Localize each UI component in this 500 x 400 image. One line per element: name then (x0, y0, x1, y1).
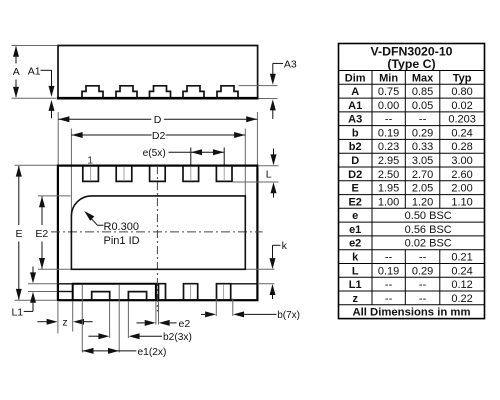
side view bottom edge (seating plane) (57, 97, 259, 100)
bottom view top pin 5 (216, 166, 232, 181)
svg-text:(Type C): (Type C) (387, 57, 435, 71)
dimension b2 line and arrows (88, 335, 98, 337)
svg-text:e(5x): e(5x) (143, 148, 166, 159)
k extension lines (246, 268, 275, 270)
svg-text:A3: A3 (348, 114, 362, 126)
svg-text:0.19: 0.19 (378, 127, 399, 139)
svg-text:3.05: 3.05 (412, 155, 433, 167)
R0.300 leader line (86, 212, 104, 225)
svg-text:A: A (351, 86, 359, 98)
svg-text:0.33: 0.33 (412, 141, 433, 153)
dimension A extension line bottom (12, 97, 57, 99)
table vertical grid lines (371, 71, 373, 305)
bottom view top pin 1 (83, 166, 99, 181)
svg-text:0.75: 0.75 (378, 86, 399, 98)
svg-text:1.20: 1.20 (412, 196, 433, 208)
svg-text:D2: D2 (152, 130, 166, 142)
svg-text:Min: Min (379, 72, 398, 84)
svg-text:e2: e2 (349, 238, 361, 250)
e1 extension lines (81, 285, 83, 353)
svg-text:--: -- (385, 293, 393, 305)
dimension D extension lines (57, 112, 59, 165)
svg-text:2.95: 2.95 (378, 155, 399, 167)
stub pad right of centerline (159, 284, 166, 300)
z extension lines (57, 302, 59, 334)
pin 2 centerline (123, 167, 125, 182)
svg-text:0.02: 0.02 (451, 100, 472, 112)
dimension A1 leader and arrows (41, 69, 52, 71)
dimension A line and arrows (15, 47, 17, 64)
svg-text:0.29: 0.29 (412, 265, 433, 277)
svg-text:L1: L1 (11, 306, 23, 318)
svg-text:0.21: 0.21 (451, 252, 472, 264)
svg-text:2.00: 2.00 (451, 183, 472, 195)
dimension e2 line and arrows (137, 322, 145, 324)
svg-text:Dim: Dim (345, 72, 366, 84)
dimension E2 line and arrows (41, 197, 43, 226)
bottom pin 6 (184, 284, 198, 300)
dimension e(5x) line and arrows (169, 151, 225, 153)
dimension E extension lines (15, 164, 58, 166)
side view lead bump 3 (150, 86, 171, 98)
side view lead bump 5 (217, 86, 238, 98)
svg-text:0.05: 0.05 (412, 100, 433, 112)
svg-text:A: A (13, 66, 20, 78)
dimension D line and arrows (58, 118, 151, 120)
svg-text:e2: e2 (179, 318, 191, 330)
svg-text:A3: A3 (284, 58, 297, 70)
dimension e1 line and arrows (82, 350, 136, 352)
svg-text:z: z (62, 317, 67, 329)
svg-text:E: E (15, 228, 22, 240)
svg-text:0.56 BSC: 0.56 BSC (405, 224, 452, 236)
svg-text:k: k (282, 240, 288, 252)
svg-text:D: D (154, 114, 162, 126)
svg-text:E2: E2 (348, 196, 361, 208)
svg-text:0.203: 0.203 (448, 114, 476, 126)
vertical centerline (156, 166, 158, 312)
pin 4 centerline (190, 167, 192, 182)
svg-text:0.80: 0.80 (451, 86, 472, 98)
svg-text:--: -- (385, 279, 393, 291)
svg-text:k: k (352, 252, 359, 264)
svg-text:--: -- (385, 114, 393, 126)
dimension A3 leader and arrows (273, 62, 283, 64)
svg-text:A1: A1 (28, 65, 41, 77)
pin 5 centerline (223, 167, 225, 182)
svg-text:--: -- (419, 114, 427, 126)
svg-text:0.28: 0.28 (451, 141, 472, 153)
svg-text:Pin1 ID: Pin1 ID (104, 235, 140, 247)
svg-text:--: -- (385, 252, 393, 264)
svg-text:D2: D2 (348, 169, 362, 181)
svg-text:Typ: Typ (453, 72, 472, 84)
pin 1 centerline (90, 167, 92, 182)
right corner wrap line (231, 283, 258, 285)
side view package body (58, 46, 258, 99)
svg-text:b2(3x): b2(3x) (163, 332, 192, 343)
left corner wrap lines (L1 step) (28, 283, 58, 285)
dimension L arrows (273, 149, 275, 155)
svg-text:E: E (352, 183, 359, 195)
svg-text:b2: b2 (349, 141, 362, 153)
svg-text:z: z (352, 293, 358, 305)
b extension lines (215, 299, 217, 317)
notch 2 in fused pad (128, 292, 146, 300)
b2 extension lines (109, 302, 111, 339)
exposed pad outline with pin1 chamfer arc (71, 196, 245, 269)
table horizontal grid lines (339, 70, 485, 72)
dimension e(5x) ticks (190, 148, 192, 166)
pin 7 centerline (223, 284, 225, 299)
side view lead bump 2 (116, 86, 137, 98)
dimension A extension line top (12, 45, 58, 47)
svg-text:2.70: 2.70 (412, 169, 433, 181)
notch 1 in fused pad (92, 292, 110, 300)
svg-text:0.24: 0.24 (451, 265, 472, 277)
svg-text:0.23: 0.23 (378, 141, 399, 153)
svg-text:b: b (352, 127, 359, 139)
dimension E line and arrows (18, 166, 20, 225)
dimension D2 line and arrows (71, 134, 151, 136)
svg-text:1.10: 1.10 (451, 196, 472, 208)
A3 bottom extension line (259, 98, 278, 100)
side view lead bump 1 (82, 86, 103, 98)
dimension L1 leader and arrows (32, 267, 34, 273)
svg-text:0.29: 0.29 (412, 127, 433, 139)
svg-text:--: -- (419, 293, 427, 305)
svg-text:0.22: 0.22 (451, 293, 472, 305)
bottom view top pin 3 (150, 166, 166, 181)
svg-text:2.60: 2.60 (451, 169, 472, 181)
pin 6 centerline (190, 284, 192, 299)
dimension b line and arrows (201, 313, 205, 315)
svg-text:R0.300: R0.300 (104, 221, 139, 233)
svg-text:L: L (352, 265, 359, 277)
svg-text:0.00: 0.00 (378, 100, 399, 112)
svg-text:e1: e1 (349, 224, 361, 236)
svg-text:0.02 BSC: 0.02 BSC (405, 238, 452, 250)
dimension E2 extension lines (38, 195, 71, 197)
svg-text:Max: Max (412, 72, 434, 84)
bottom view top pin 4 (183, 166, 199, 181)
svg-text:0.50 BSC: 0.50 BSC (405, 210, 452, 222)
svg-text:0.12: 0.12 (451, 279, 472, 291)
dimension k leader and arrows (273, 244, 281, 246)
svg-text:0.19: 0.19 (378, 265, 399, 277)
side view lead bump 4 (183, 86, 204, 98)
bottom pin 7 (217, 284, 231, 300)
dimension D2 extension lines (70, 129, 72, 215)
svg-text:--: -- (419, 252, 427, 264)
table outer border (339, 44, 485, 319)
svg-text:E2: E2 (35, 228, 48, 240)
svg-text:e: e (352, 210, 358, 222)
svg-text:1.00: 1.00 (378, 196, 399, 208)
R0.300 leader arrow (84, 211, 94, 221)
svg-text:L: L (266, 169, 272, 181)
svg-text:e1(2x): e1(2x) (138, 347, 167, 358)
horizontal centerline (51, 231, 263, 233)
dimension z line and arrows (37, 321, 46, 323)
svg-text:2.50: 2.50 (378, 169, 399, 181)
svg-text:--: -- (419, 279, 427, 291)
e2 extension lines (155, 301, 157, 325)
A3 lead thickness line (239, 85, 278, 87)
bottom view top pin 2 (116, 166, 132, 181)
L extension lines (258, 165, 279, 167)
bottom view package outline (58, 166, 258, 301)
fused wide pad (3 fingers) (73, 284, 156, 300)
svg-text:b(7x): b(7x) (277, 310, 300, 321)
svg-text:3.00: 3.00 (451, 155, 472, 167)
svg-text:D: D (351, 155, 359, 167)
svg-text:2.05: 2.05 (412, 183, 433, 195)
svg-text:L1: L1 (349, 279, 362, 291)
svg-text:A1: A1 (348, 100, 362, 112)
svg-text:All Dimensions in mm: All Dimensions in mm (352, 307, 470, 319)
svg-text:1.95: 1.95 (378, 183, 399, 195)
svg-text:0.24: 0.24 (451, 127, 472, 139)
svg-text:1: 1 (87, 154, 93, 166)
svg-text:0.85: 0.85 (412, 86, 433, 98)
